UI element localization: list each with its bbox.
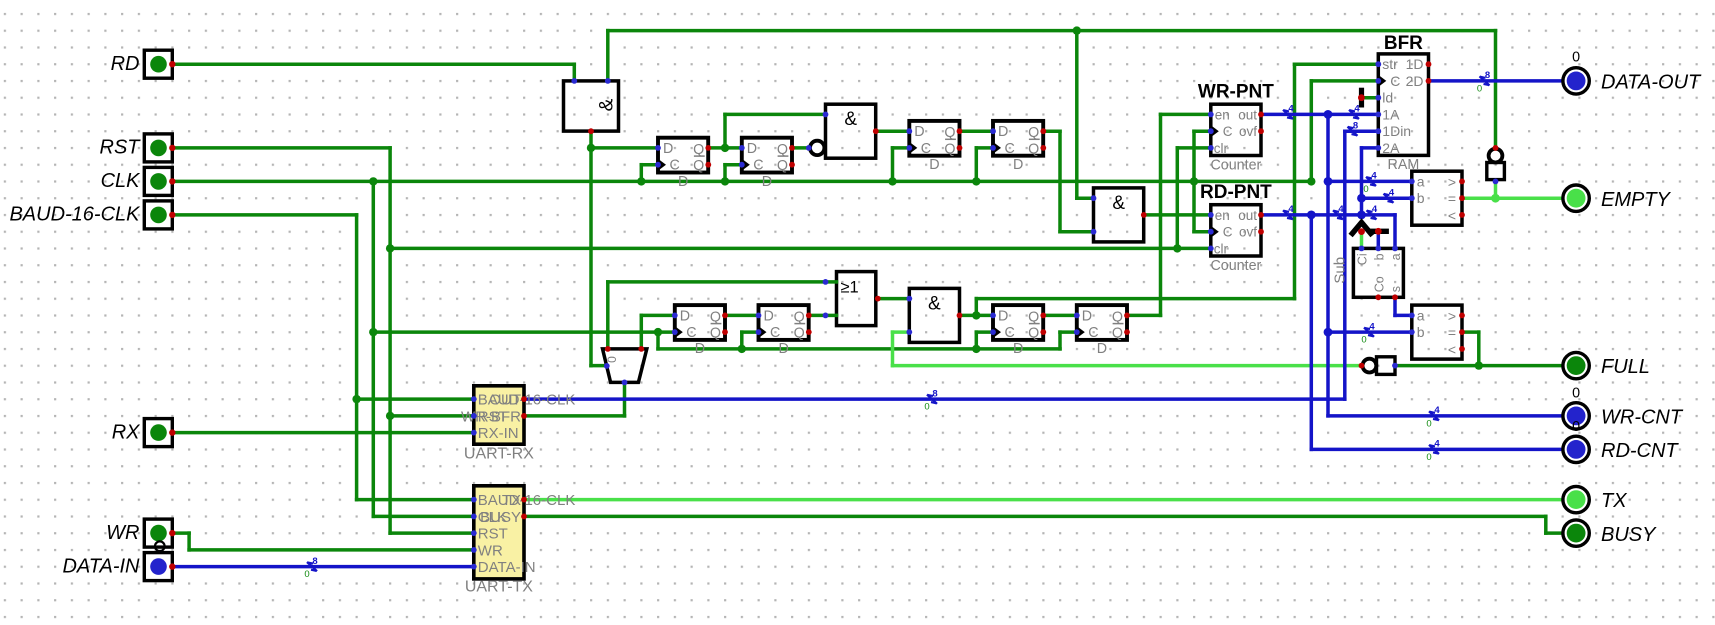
- svg-text:RST: RST: [478, 526, 508, 543]
- svg-text:4: 4: [1371, 171, 1377, 182]
- svg-text:DATA-IN: DATA-IN: [478, 559, 536, 576]
- svg-text:Sub: Sub: [1331, 257, 1348, 284]
- svg-text:D: D: [680, 308, 690, 324]
- svg-text:RX-IN: RX-IN: [478, 425, 519, 442]
- svg-text:Ci: Ci: [1356, 253, 1370, 265]
- svg-text:RD-PNT: RD-PNT: [1200, 182, 1272, 203]
- svg-text:Q: Q: [1028, 141, 1039, 157]
- svg-text:=: =: [1448, 191, 1456, 207]
- svg-text:D: D: [779, 341, 789, 357]
- svg-text:0: 0: [605, 356, 619, 363]
- svg-text:b: b: [1372, 253, 1386, 260]
- svg-text:0: 0: [1572, 385, 1580, 401]
- svg-text:0: 0: [304, 569, 309, 580]
- svg-text:Q: Q: [944, 141, 955, 157]
- svg-text:0: 0: [1361, 335, 1366, 346]
- svg-text:&: &: [596, 98, 617, 111]
- svg-text:RST: RST: [100, 137, 142, 159]
- svg-text:=: =: [1448, 325, 1456, 341]
- svg-text:RX: RX: [112, 421, 140, 443]
- svg-text:b: b: [1417, 324, 1425, 340]
- svg-text:Counter: Counter: [1210, 158, 1261, 174]
- svg-text:&: &: [844, 109, 857, 130]
- svg-text:0: 0: [1426, 452, 1431, 463]
- svg-text:D: D: [762, 174, 772, 190]
- svg-text:WR: WR: [478, 542, 503, 559]
- svg-text:&: &: [928, 293, 941, 314]
- svg-text:C: C: [1223, 124, 1233, 139]
- svg-text:FULL: FULL: [1601, 356, 1650, 378]
- svg-text:out: out: [1238, 107, 1257, 122]
- svg-text:Q: Q: [710, 326, 721, 342]
- svg-text:D: D: [998, 308, 1008, 324]
- svg-text:8: 8: [1353, 120, 1358, 131]
- svg-text:Q: Q: [1028, 326, 1039, 342]
- svg-text:UART-TX: UART-TX: [465, 579, 533, 596]
- svg-text:8: 8: [932, 388, 937, 399]
- svg-text:WR-PNT: WR-PNT: [1198, 82, 1274, 103]
- svg-text:C: C: [1088, 325, 1098, 341]
- svg-text:&: &: [1112, 193, 1125, 214]
- svg-text:0: 0: [1572, 419, 1580, 435]
- svg-text:en: en: [1215, 107, 1230, 122]
- svg-text:C: C: [1005, 325, 1015, 341]
- svg-text:BAUD-16-CLK: BAUD-16-CLK: [9, 204, 141, 226]
- svg-text:ovf: ovf: [1239, 124, 1257, 139]
- svg-text:1D: 1D: [1406, 56, 1424, 72]
- svg-text:a: a: [1389, 253, 1403, 260]
- svg-text:OUT: OUT: [489, 392, 521, 409]
- svg-text:>: >: [1448, 308, 1456, 324]
- svg-text:2D: 2D: [1406, 73, 1424, 89]
- svg-text:Counter: Counter: [1210, 258, 1261, 274]
- svg-text:C: C: [770, 325, 780, 341]
- svg-text:BFR: BFR: [1384, 33, 1423, 54]
- svg-text:DATA-IN: DATA-IN: [62, 555, 140, 577]
- svg-text:BUSY: BUSY: [1601, 524, 1657, 546]
- svg-text:b: b: [1417, 190, 1425, 206]
- svg-text:4: 4: [1354, 104, 1360, 115]
- svg-text:4: 4: [1372, 204, 1378, 215]
- svg-text:C: C: [686, 325, 696, 341]
- svg-text:s: s: [1389, 286, 1403, 292]
- svg-text:2A: 2A: [1382, 140, 1400, 156]
- svg-text:a: a: [1417, 173, 1425, 189]
- svg-text:TX: TX: [1601, 490, 1627, 512]
- svg-text:Q: Q: [794, 326, 805, 342]
- svg-text:BUSY: BUSY: [480, 509, 521, 526]
- svg-text:4: 4: [1338, 204, 1344, 215]
- svg-text:RD-CNT: RD-CNT: [1601, 440, 1679, 462]
- svg-text:<: <: [1448, 341, 1456, 357]
- svg-text:0: 0: [1363, 184, 1368, 195]
- svg-text:DATA-OUT: DATA-OUT: [1601, 72, 1702, 94]
- svg-text:D: D: [1082, 308, 1092, 324]
- svg-text:≥1: ≥1: [841, 279, 859, 297]
- svg-text:0: 0: [924, 402, 929, 413]
- svg-text:str: str: [1382, 56, 1398, 72]
- svg-text:8: 8: [1485, 70, 1490, 81]
- svg-text:4: 4: [1434, 439, 1440, 450]
- svg-text:RD: RD: [111, 53, 140, 75]
- svg-text:D: D: [998, 124, 1008, 140]
- svg-text:clr: clr: [1214, 141, 1229, 156]
- svg-text:0: 0: [1426, 418, 1431, 429]
- svg-text:en: en: [1215, 208, 1230, 223]
- svg-text:WR: WR: [106, 522, 139, 544]
- svg-text:a: a: [1417, 307, 1425, 323]
- svg-text:UART-RX: UART-RX: [464, 446, 534, 463]
- svg-text:C: C: [1005, 141, 1015, 157]
- svg-text:C: C: [670, 158, 680, 174]
- svg-text:WR-CNT: WR-CNT: [1601, 407, 1684, 429]
- svg-text:0: 0: [1572, 49, 1580, 65]
- svg-text:8: 8: [312, 556, 317, 567]
- svg-text:1A: 1A: [1382, 106, 1400, 122]
- svg-text:Q: Q: [777, 158, 788, 174]
- svg-text:C: C: [921, 141, 931, 157]
- svg-text:>: >: [1448, 174, 1456, 190]
- svg-text:Co: Co: [1372, 276, 1386, 292]
- svg-text:D: D: [1097, 341, 1107, 357]
- svg-text:D: D: [929, 157, 939, 173]
- svg-text:Q: Q: [1112, 326, 1123, 342]
- svg-text:0: 0: [1477, 83, 1482, 94]
- svg-text:D: D: [695, 341, 705, 357]
- svg-text:ld: ld: [1382, 90, 1393, 106]
- svg-text:D: D: [914, 124, 924, 140]
- svg-text:D: D: [678, 174, 688, 190]
- svg-text:4: 4: [1389, 187, 1395, 198]
- svg-text:C: C: [753, 158, 763, 174]
- svg-text:D: D: [1013, 341, 1023, 357]
- svg-text:D: D: [663, 141, 673, 157]
- svg-text:<: <: [1448, 207, 1456, 223]
- svg-text:TX: TX: [502, 492, 521, 509]
- svg-text:D: D: [764, 308, 774, 324]
- svg-text:C: C: [1223, 225, 1233, 240]
- svg-text:4: 4: [1288, 104, 1294, 115]
- svg-text:D: D: [747, 141, 757, 157]
- svg-text:D: D: [1013, 157, 1023, 173]
- svg-text:1Din: 1Din: [1382, 123, 1411, 139]
- svg-text:C: C: [1390, 73, 1400, 89]
- svg-text:4: 4: [1434, 405, 1440, 416]
- svg-text:clr: clr: [1214, 241, 1229, 256]
- svg-text:ovf: ovf: [1239, 225, 1257, 240]
- svg-text:4: 4: [1288, 204, 1294, 215]
- svg-text:EMPTY: EMPTY: [1601, 189, 1672, 211]
- svg-text:out: out: [1238, 208, 1257, 223]
- svg-text:Q: Q: [693, 158, 704, 174]
- svg-text:4: 4: [1369, 321, 1375, 332]
- svg-text:WR-BFR: WR-BFR: [461, 408, 521, 425]
- svg-text:CLK: CLK: [101, 170, 142, 192]
